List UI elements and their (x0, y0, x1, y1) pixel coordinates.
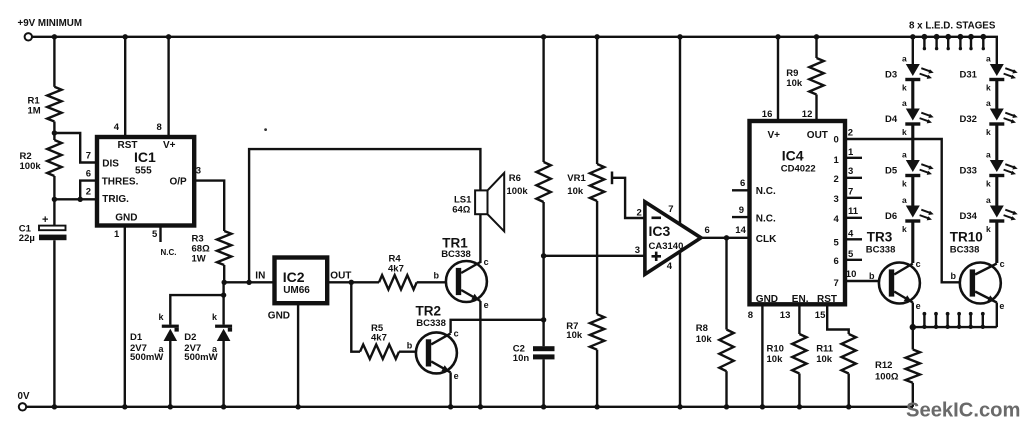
svg-text:a: a (986, 195, 991, 205)
svg-text:D6: D6 (885, 211, 897, 222)
svg-text:IC1: IC1 (134, 149, 156, 165)
svg-text:BC338: BC338 (950, 244, 980, 255)
svg-text:e: e (484, 300, 489, 310)
wire left LED chain top (912, 37, 914, 64)
wire emitter bus (913, 326, 997, 328)
wire +9V rail (32, 37, 997, 64)
wire IC2 OUT node (327, 281, 379, 283)
svg-text:2: 2 (848, 127, 853, 138)
wire THRES-TRIG link (80, 181, 97, 200)
wire TR3 emitter (912, 303, 914, 328)
svg-text:5: 5 (152, 229, 158, 240)
svg-text:THRES.: THRES. (102, 176, 139, 187)
svg-text:CA3140: CA3140 (649, 241, 684, 252)
svg-text:D32: D32 (960, 114, 977, 125)
svg-text:D5: D5 (885, 166, 898, 177)
zener D1 (162, 325, 179, 328)
potentiometer VR1 (590, 164, 604, 201)
svg-text:10k: 10k (696, 334, 713, 345)
resistor R2 (47, 140, 61, 176)
svg-text:IN: IN (255, 270, 265, 281)
svg-text:BC338: BC338 (416, 318, 446, 329)
wire IC2 GND to 0V (297, 303, 299, 407)
transistor TR3 (879, 263, 920, 304)
svg-text:D1: D1 (130, 332, 143, 343)
svg-text:1W: 1W (192, 254, 206, 265)
svg-text:BC338: BC338 (441, 249, 471, 260)
resistor R1 (47, 87, 61, 122)
svg-text:k: k (902, 127, 907, 137)
svg-text:0: 0 (834, 135, 839, 146)
svg-text:D33: D33 (960, 166, 977, 177)
svg-text:e: e (454, 371, 459, 381)
wire C1 to 0V (53, 240, 55, 407)
svg-text:7: 7 (848, 187, 853, 198)
wire C2 to 0V (542, 359, 544, 406)
svg-text:a: a (902, 195, 907, 205)
wire IC3 output to CLK (701, 237, 750, 239)
wire R10 to 0V (798, 374, 800, 407)
speaker LS1 (475, 190, 487, 214)
svg-text:5: 5 (848, 249, 854, 260)
emitter bus stubs (923, 314, 925, 328)
IC1 555 (97, 137, 194, 226)
wire D2 anode to 0V (222, 341, 224, 407)
resistor R11 (842, 334, 856, 374)
svg-text:k: k (986, 179, 991, 189)
svg-text:N.C.: N.C. (756, 186, 776, 197)
svg-text:VR1: VR1 (567, 173, 586, 184)
svg-text:22µ: 22µ (19, 233, 35, 244)
wire 0V rail (26, 406, 913, 408)
svg-text:a: a (986, 150, 991, 160)
svg-text:CLK: CLK (756, 234, 777, 245)
wire R5 branch (351, 282, 360, 351)
wire IC4 EN pin (798, 304, 800, 334)
svg-text:e: e (916, 301, 921, 311)
resistor R6 (536, 162, 550, 202)
svg-text:D4: D4 (885, 114, 898, 125)
svg-text:IC2: IC2 (283, 269, 305, 285)
LED D5 (906, 160, 920, 172)
wire IC4 pin6 N.C. stub (732, 189, 750, 191)
svg-text:2: 2 (834, 174, 839, 185)
svg-text:1M: 1M (28, 106, 41, 117)
svg-text:13: 13 (780, 310, 791, 321)
svg-text:8: 8 (748, 310, 753, 321)
wire IC4 RST pin (827, 304, 849, 334)
transistor TR2 (416, 332, 457, 373)
wire IC3 +input (544, 255, 645, 257)
svg-text:R10: R10 (767, 343, 784, 354)
wire R12 to 0V (912, 383, 914, 407)
svg-text:OUT: OUT (807, 130, 828, 141)
svg-text:RST: RST (817, 294, 837, 305)
svg-text:7: 7 (86, 150, 91, 161)
svg-text:k: k (986, 83, 991, 93)
svg-text:b: b (951, 271, 957, 281)
svg-text:100Ω: 100Ω (875, 371, 899, 382)
svg-text:4: 4 (114, 122, 120, 133)
wire speaker to TR1 collector (479, 214, 481, 263)
svg-text:R11: R11 (816, 343, 834, 354)
svg-text:a: a (902, 150, 907, 160)
wire R8 to 0V (725, 371, 727, 407)
LED bus stubs top (923, 37, 925, 50)
svg-text:k: k (986, 224, 991, 234)
svg-text:6: 6 (86, 168, 91, 179)
svg-text:3: 3 (834, 194, 839, 205)
svg-text:500mW: 500mW (130, 352, 163, 363)
zener D2 (215, 325, 232, 328)
svg-text:6: 6 (705, 225, 710, 236)
svg-text:D3: D3 (885, 70, 897, 81)
wire IC3 pin4 to 0V (679, 251, 681, 407)
svg-text:2: 2 (86, 186, 91, 197)
svg-text:64Ω: 64Ω (452, 205, 471, 216)
svg-text:O/P: O/P (170, 176, 188, 187)
svg-text:R8: R8 (696, 323, 708, 334)
svg-text:4k7: 4k7 (371, 333, 387, 344)
svg-text:GND: GND (115, 212, 137, 223)
svg-text:10k: 10k (816, 354, 833, 365)
svg-text:TR3: TR3 (867, 230, 893, 245)
svg-text:c: c (454, 329, 459, 339)
svg-text:100k: 100k (20, 161, 42, 172)
op-amp IC3 (645, 202, 701, 274)
svg-text:+: + (42, 214, 48, 226)
resistor R12 (912, 327, 914, 349)
resistor R9 (815, 37, 817, 58)
svg-text:9: 9 (739, 205, 744, 216)
svg-text:b: b (407, 340, 413, 350)
resistor R3 (217, 231, 231, 265)
LED D31 (990, 64, 1004, 76)
transistor TR1 (446, 261, 487, 302)
svg-text:6: 6 (740, 178, 745, 189)
svg-text:7: 7 (668, 204, 673, 215)
wire IC4 pin16 supply (777, 37, 779, 121)
svg-text:8: 8 (157, 122, 162, 133)
LED D4 (906, 109, 920, 121)
IC4 output stubs (845, 157, 862, 159)
resistor R7 (590, 314, 604, 350)
svg-text:3: 3 (196, 166, 201, 177)
svg-text:a: a (902, 98, 907, 108)
wire IC4 pin2 to TR10 base (845, 139, 971, 282)
svg-text:500mW: 500mW (184, 352, 217, 363)
speck (264, 128, 267, 131)
svg-text:c: c (484, 257, 489, 267)
svg-text:3: 3 (848, 166, 853, 177)
svg-text:10k: 10k (786, 78, 803, 89)
wire supply loop to speaker (249, 149, 480, 282)
wire R3 node to IC2 IN (224, 281, 274, 283)
svg-text:TR10: TR10 (950, 230, 983, 245)
svg-text:10k: 10k (767, 354, 784, 365)
svg-text:16: 16 (762, 109, 773, 120)
svg-text:15: 15 (815, 310, 826, 321)
wire R2 bottom to TRIG node (53, 176, 55, 226)
wire IC4 pin10 to TR3 base (845, 280, 890, 282)
svg-text:12: 12 (802, 109, 813, 120)
svg-text:14: 14 (735, 225, 746, 236)
wire D1 link (170, 295, 223, 325)
wire R11 to 0V (848, 374, 850, 407)
svg-text:10k: 10k (566, 330, 583, 341)
svg-text:c: c (1000, 259, 1005, 269)
svg-text:D34: D34 (960, 211, 978, 222)
svg-text:GND: GND (756, 294, 778, 305)
svg-text:7: 7 (834, 278, 839, 289)
wire TR2 emitter to 0V (449, 372, 451, 406)
resistor R5 (360, 345, 399, 359)
svg-text:IC3: IC3 (649, 223, 671, 239)
wire IC4 pin9 N.C. stub (732, 216, 750, 218)
svg-text:k: k (902, 83, 907, 93)
svg-text:OUT: OUT (330, 270, 351, 281)
svg-text:10k: 10k (567, 186, 584, 197)
svg-text:1: 1 (848, 147, 854, 158)
LED D3 (906, 64, 920, 76)
svg-text:BC338: BC338 (866, 244, 896, 255)
wire R7 to 0V (596, 350, 598, 407)
left chain wire segments (911, 81, 914, 109)
svg-text:555: 555 (135, 166, 152, 177)
0V supply terminal (19, 403, 26, 410)
IC4 CD4022 (750, 121, 846, 304)
svg-text:R12: R12 (875, 360, 892, 371)
svg-text:GND: GND (268, 311, 290, 322)
svg-text:10n: 10n (513, 353, 530, 364)
svg-text:a: a (986, 54, 991, 64)
wire VR1 to R7 (596, 201, 598, 314)
svg-text:1: 1 (834, 155, 840, 166)
right chain wire segments (995, 81, 998, 109)
svg-text:TR2: TR2 (416, 303, 442, 318)
svg-text:N.C.: N.C. (161, 248, 177, 257)
op IC1 pin4 wire (124, 37, 126, 137)
IC2 UM66 (275, 258, 328, 304)
LED D6 (906, 206, 920, 218)
svg-text:4: 4 (848, 229, 854, 240)
svg-text:4: 4 (834, 214, 840, 225)
LED D32 (990, 109, 1004, 121)
svg-text:6: 6 (834, 256, 839, 267)
svg-text:TRIG.: TRIG. (102, 194, 129, 205)
svg-text:e: e (999, 301, 1004, 311)
svg-text:k: k (902, 224, 907, 234)
svg-text:11: 11 (848, 206, 859, 217)
wire TR1 emitter to 0V (479, 301, 481, 407)
wire VR1 top (596, 37, 598, 164)
pin 8 wire (167, 37, 169, 137)
wire IC1 pin5 stub (159, 226, 161, 242)
resistor R4 (379, 275, 417, 289)
wire IC1 pin1 to 0V (124, 226, 126, 407)
svg-text:IC4: IC4 (782, 147, 804, 163)
svg-text:2: 2 (637, 208, 642, 219)
svg-text:b: b (869, 271, 875, 281)
wire IC1 O/P to R3 (194, 181, 224, 231)
svg-text:4k7: 4k7 (388, 263, 404, 274)
svg-text:3: 3 (635, 245, 640, 256)
svg-text:N.C.: N.C. (756, 213, 776, 224)
svg-text:5: 5 (834, 238, 840, 249)
wire R6 top (542, 37, 544, 162)
svg-text:c: c (916, 259, 921, 269)
wire R6 bottom column (542, 202, 544, 346)
svg-text:CD4022: CD4022 (781, 164, 816, 175)
wire IC4 GND to 0V (761, 304, 763, 407)
LED D34 (990, 206, 1004, 218)
wire D2 cathode branch (222, 282, 224, 324)
transistor TR10 (960, 263, 1001, 304)
svg-text:10: 10 (846, 269, 857, 280)
svg-text:V+: V+ (163, 140, 176, 151)
wire R1-R2 junction (53, 122, 55, 141)
VR1 wiper (611, 172, 614, 185)
svg-text:0V: 0V (18, 391, 30, 402)
svg-text:k: k (902, 179, 907, 189)
svg-text:k: k (986, 127, 991, 137)
wire R9 to pin12 (815, 95, 817, 122)
svg-text:a: a (986, 98, 991, 108)
wire IC3 pin7 supply (679, 37, 681, 225)
wire TR2 collector to C2 node (451, 320, 544, 333)
wire R5 to TR2 base (399, 351, 426, 353)
svg-text:SeekIC.com: SeekIC.com (906, 400, 1020, 422)
svg-text:100k: 100k (507, 186, 529, 197)
wire R4 to TR1 base (417, 281, 456, 283)
svg-text:b: b (434, 271, 440, 281)
svg-text:+9V MINIMUM: +9V MINIMUM (18, 18, 83, 29)
wire DIS branch (54, 133, 97, 163)
wire R3 bottom (223, 265, 225, 282)
wire TRIG (54, 198, 97, 200)
resistor R8 (725, 238, 727, 330)
+9V supply terminal (25, 33, 32, 40)
svg-text:DIS: DIS (102, 159, 119, 170)
svg-text:UM66: UM66 (283, 285, 310, 296)
LED D33 (990, 160, 1004, 172)
wire TR10 emitter (996, 303, 998, 328)
svg-text:R6: R6 (509, 173, 521, 184)
resistor R10 (792, 334, 806, 374)
svg-text:V+: V+ (768, 130, 781, 141)
svg-text:8 x L.E.D. STAGES: 8 x L.E.D. STAGES (909, 21, 996, 32)
svg-text:4: 4 (667, 261, 673, 272)
svg-text:a: a (902, 54, 907, 64)
svg-text:D2: D2 (184, 332, 196, 343)
capacitor C2 (533, 346, 555, 351)
svg-text:EN.: EN. (792, 294, 809, 305)
wire R1 top (53, 37, 55, 87)
wire D1 anode to 0V (169, 341, 171, 407)
svg-text:D31: D31 (960, 70, 978, 81)
svg-text:1: 1 (114, 229, 120, 240)
